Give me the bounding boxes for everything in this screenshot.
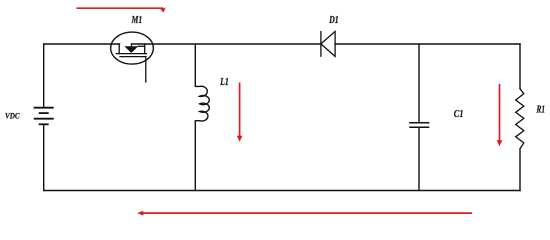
svg-text:M1: M1 [131,15,143,26]
svg-text:R1: R1 [536,105,545,116]
diode D1 [321,31,335,56]
wire bottom rail [44,190,520,192]
current arrow bottom (return current, left) [137,211,472,216]
inductor L1 [195,86,209,121]
voltage source VDC [34,108,54,125]
wire right rail lower [519,149,521,190]
capacitor C1 [409,123,429,128]
svg-text:C1: C1 [454,109,464,120]
current arrow L1 (inductor current, down) [237,83,243,142]
wire C1 branch upper [418,44,420,122]
wire C1 branch lower [418,128,420,191]
transistor M1 (MOSFET) [111,32,154,82]
wire top rail middle segment [132,43,321,45]
svg-text:VDC: VDC [5,111,20,120]
svg-text:D1: D1 [328,15,338,26]
wire right rail upper [519,44,521,88]
wire L1 branch upper [194,44,196,86]
wire top rail left segment [44,43,120,45]
wire top rail right segment [335,43,520,45]
svg-text:L1: L1 [219,77,228,88]
wire left rail upper [43,44,45,107]
wire left rail lower [43,125,45,191]
current arrow top (switch current) [77,7,166,12]
resistor R1 [516,88,524,149]
current arrow R1 (load current, down) [497,84,503,146]
wire L1 branch lower [194,121,196,191]
